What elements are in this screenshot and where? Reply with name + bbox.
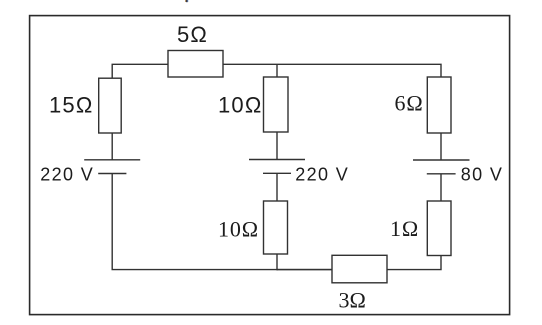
svg-text:1Ω: 1Ω xyxy=(390,216,419,241)
svg-text:3Ω: 3Ω xyxy=(339,288,366,313)
svg-text:220 V: 220 V xyxy=(40,164,94,184)
svg-text:10Ω: 10Ω xyxy=(218,216,259,241)
svg-text:5Ω: 5Ω xyxy=(177,22,208,47)
svg-text:80 V: 80 V xyxy=(461,164,503,184)
svg-text:15Ω: 15Ω xyxy=(49,92,94,117)
svg-text:220 V: 220 V xyxy=(295,164,349,184)
svg-text:10Ω: 10Ω xyxy=(218,92,263,117)
svg-text:6Ω: 6Ω xyxy=(395,90,424,115)
